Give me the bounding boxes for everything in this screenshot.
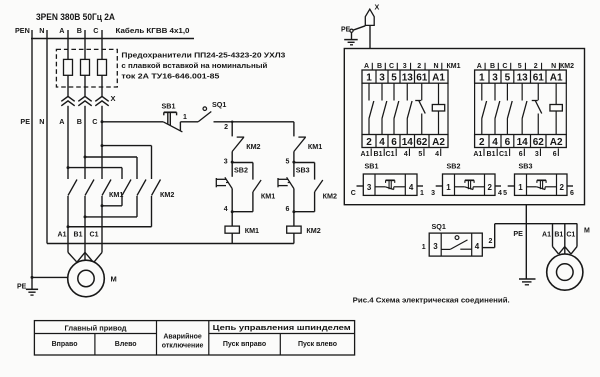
motor M right terminal leads bbox=[542, 224, 590, 255]
node 6 bbox=[285, 189, 295, 227]
svg-text:2: 2 bbox=[534, 63, 538, 70]
wire N vertical bbox=[39, 44, 47, 244]
svg-text:КМ2: КМ2 bbox=[160, 190, 174, 199]
svg-text:PEN: PEN bbox=[15, 26, 30, 35]
svg-text:3: 3 bbox=[367, 183, 372, 192]
wire A to KM2 contact column 4 bbox=[67, 166, 123, 179]
wire SQ1 to motor cable bbox=[482, 224, 577, 248]
coil КМ1 bbox=[225, 226, 259, 235]
svg-text:Пуск влево: Пуск влево bbox=[298, 341, 337, 348]
svg-text:2: 2 bbox=[479, 137, 485, 148]
svg-text:4: 4 bbox=[379, 137, 385, 148]
svg-text:Кабель КГВВ 4х1,0: Кабель КГВВ 4х1,0 bbox=[116, 26, 190, 35]
wire X to cabinet bbox=[369, 25, 371, 48]
svg-text:PE: PE bbox=[341, 27, 351, 34]
node N with label bbox=[39, 26, 47, 44]
ground PE right bbox=[519, 279, 536, 285]
contactor КМ1 terminal row bottom bbox=[362, 135, 448, 148]
svg-text:SQ1: SQ1 bbox=[212, 100, 226, 109]
svg-text:КМ1: КМ1 bbox=[308, 142, 322, 151]
svg-text:КМ1: КМ1 bbox=[109, 190, 123, 199]
svg-text:КМ2: КМ2 bbox=[306, 226, 320, 235]
node PEN with label bbox=[15, 26, 32, 44]
svg-text:13: 13 bbox=[402, 73, 414, 84]
node 5 bbox=[285, 152, 295, 177]
svg-text:3: 3 bbox=[492, 73, 498, 84]
table cell emergency off bbox=[162, 332, 204, 349]
wire C output to C1 bbox=[101, 196, 104, 252]
svg-text:A2: A2 bbox=[550, 137, 563, 148]
pushbutton SB1 (NC stop) bbox=[162, 102, 183, 132]
fuse note text bbox=[121, 53, 285, 81]
svg-text:Рис.4 Схема электрическая соед: Рис.4 Схема электрическая соединений. bbox=[353, 296, 510, 305]
table cell right rotation bbox=[52, 341, 78, 348]
svg-text:A1: A1 bbox=[550, 73, 563, 84]
limit switch SQ1 bbox=[198, 100, 226, 122]
wire branch drop node 3 bbox=[231, 122, 233, 137]
svg-text:A: A bbox=[59, 26, 64, 35]
svg-text:4: 4 bbox=[409, 183, 414, 192]
svg-text:1: 1 bbox=[518, 183, 523, 192]
contactor КМ1 terminal row top bbox=[362, 70, 448, 84]
svg-text:Цепь управления шпинделем: Цепь управления шпинделем bbox=[213, 325, 351, 332]
svg-text:PE: PE bbox=[20, 117, 30, 126]
ground PE top right bbox=[344, 32, 358, 45]
svg-text:13: 13 bbox=[517, 73, 529, 84]
contact КМ1 NC bbox=[294, 137, 322, 151]
svg-text:A1: A1 bbox=[58, 232, 67, 239]
label: cable type KGVV 4x1.0 bbox=[116, 26, 190, 35]
terminal labels top of КМ2 bbox=[477, 63, 574, 70]
svg-text:КМ2: КМ2 bbox=[560, 63, 574, 70]
node 4 bbox=[224, 189, 234, 227]
svg-text:4: 4 bbox=[224, 206, 228, 213]
svg-text:отключение: отключение bbox=[162, 342, 204, 349]
svg-text:6: 6 bbox=[505, 137, 511, 148]
motor terminal labels A1 B1 C1 bbox=[58, 232, 99, 239]
svg-text:B1: B1 bbox=[487, 151, 496, 158]
table cell start left bbox=[298, 341, 337, 348]
PE terminal top right bbox=[341, 26, 365, 34]
svg-text:C1: C1 bbox=[90, 232, 99, 239]
pushbutton station SB1 bbox=[363, 162, 417, 196]
svg-text:SB2: SB2 bbox=[234, 166, 248, 175]
contactor КМ2 terminal row top bbox=[475, 70, 567, 84]
contactor КМ2 coil bbox=[550, 83, 562, 134]
svg-text:B1: B1 bbox=[554, 232, 563, 239]
contactor КМ2 NC aux contact bbox=[532, 83, 542, 134]
svg-text:Аварийное: Аварийное bbox=[163, 332, 202, 340]
svg-text:6: 6 bbox=[391, 137, 397, 148]
contact КМ2 NO (seal-in) bbox=[315, 180, 337, 201]
svg-text:PE: PE bbox=[17, 284, 27, 291]
SQ1 terminal labels bbox=[422, 238, 493, 251]
svg-text:A1: A1 bbox=[361, 151, 370, 158]
ground PE bottom left bbox=[17, 277, 38, 295]
svg-text:PE: PE bbox=[513, 229, 523, 238]
svg-text:6: 6 bbox=[285, 206, 289, 213]
wire PE vertical bbox=[20, 44, 32, 277]
svg-text:6: 6 bbox=[519, 151, 523, 158]
wire node 2 bbox=[214, 121, 294, 132]
svg-text:1: 1 bbox=[420, 190, 424, 197]
pushbutton SB2 NO bbox=[216, 166, 248, 189]
svg-text:B: B bbox=[490, 63, 495, 70]
fuse FU2 bbox=[81, 44, 90, 97]
svg-text:КМ1: КМ1 bbox=[447, 63, 461, 70]
svg-text:ток 2А ТУ16-646.001-85: ток 2А ТУ16-646.001-85 bbox=[121, 74, 219, 81]
svg-text:3: 3 bbox=[431, 190, 435, 197]
wire PE to motor bbox=[31, 276, 68, 279]
svg-text:6: 6 bbox=[553, 151, 557, 158]
svg-text:5: 5 bbox=[503, 190, 507, 197]
svg-text:C: C bbox=[502, 63, 507, 70]
contactor КМ1 body side rails bbox=[362, 83, 448, 134]
table header main drive bbox=[65, 325, 128, 333]
terminal labels bottom of КМ1 bbox=[361, 149, 441, 159]
table cell left rotation bbox=[115, 341, 137, 348]
svg-text:2: 2 bbox=[560, 183, 565, 192]
contactor KM2 main contacts bbox=[122, 180, 174, 200]
motor M left bbox=[68, 260, 117, 297]
fuse FU1 bbox=[64, 44, 73, 97]
wire stubs of SB2 bbox=[431, 186, 502, 197]
svg-text:5: 5 bbox=[285, 159, 289, 166]
svg-text:14: 14 bbox=[517, 137, 529, 148]
wire phase C vertical bbox=[101, 106, 103, 179]
svg-text:A1: A1 bbox=[542, 232, 551, 239]
terminal labels bottom of КМ2 bbox=[473, 149, 558, 159]
svg-text:КМ2: КМ2 bbox=[323, 192, 337, 201]
svg-text:4: 4 bbox=[475, 242, 480, 251]
node B with label bbox=[77, 26, 85, 44]
svg-text:2: 2 bbox=[489, 238, 493, 245]
svg-text:2: 2 bbox=[366, 137, 372, 148]
svg-text:SB1: SB1 bbox=[162, 102, 176, 111]
svg-text:6: 6 bbox=[570, 190, 574, 197]
contactor КМ1 contacts bbox=[369, 83, 412, 134]
contactor КМ1 NC aux contact bbox=[415, 83, 425, 134]
svg-text:КМ1: КМ1 bbox=[245, 226, 259, 235]
svg-text:3: 3 bbox=[535, 151, 539, 158]
svg-text:X: X bbox=[111, 94, 116, 103]
svg-text:2: 2 bbox=[417, 63, 421, 70]
svg-text:N: N bbox=[39, 117, 44, 126]
svg-text:4: 4 bbox=[435, 151, 439, 158]
svg-text:SQ1: SQ1 bbox=[432, 222, 446, 231]
pushbutton station SB2 bbox=[443, 162, 496, 196]
wire A output to A1 bbox=[67, 196, 70, 252]
phase labels row 2 bbox=[59, 117, 97, 126]
svg-text:61: 61 bbox=[533, 73, 545, 84]
wire parallel branch down bbox=[232, 192, 253, 212]
table cell start right bbox=[223, 341, 266, 348]
svg-text:1: 1 bbox=[479, 73, 485, 84]
svg-text:3PEN 380В 50Гц 2А: 3PEN 380В 50Гц 2А bbox=[36, 12, 115, 23]
svg-text:B1: B1 bbox=[374, 151, 383, 158]
terminal labels top of КМ1 bbox=[364, 63, 461, 70]
wire KM2 col4 to C1 bbox=[102, 196, 122, 206]
svg-text:C: C bbox=[351, 190, 356, 197]
wire coil to neutral bus bbox=[293, 233, 295, 243]
svg-text:1: 1 bbox=[183, 114, 187, 121]
svg-text:Вправо: Вправо bbox=[52, 341, 78, 348]
connector X chevron arrows bbox=[61, 94, 115, 106]
wire parallel branch down bbox=[294, 192, 315, 212]
svg-text:4: 4 bbox=[404, 151, 408, 158]
svg-text:4: 4 bbox=[498, 190, 502, 197]
dashed fuse enclosure bbox=[56, 49, 117, 87]
svg-text:C1: C1 bbox=[566, 232, 575, 239]
wire control neutral bus bbox=[47, 243, 294, 245]
contactor KM1 main contacts bbox=[68, 180, 123, 200]
svg-text:2: 2 bbox=[488, 183, 493, 192]
svg-text:1: 1 bbox=[422, 244, 426, 251]
svg-text:B: B bbox=[77, 117, 82, 126]
wire coil to neutral bus bbox=[231, 233, 233, 243]
svg-text:X: X bbox=[375, 3, 380, 12]
svg-text:SB1: SB1 bbox=[365, 162, 379, 171]
contactor КМ1 coil bbox=[432, 83, 444, 134]
svg-text:М: М bbox=[584, 228, 590, 235]
svg-text:62: 62 bbox=[533, 137, 545, 148]
node on C feeding control bbox=[101, 120, 164, 123]
contactor КМ2 terminal row bottom bbox=[475, 135, 567, 148]
svg-text:N: N bbox=[39, 26, 44, 35]
table header spindle control bbox=[213, 325, 351, 332]
wire to parallel contact bbox=[294, 163, 315, 180]
svg-text:КМ2: КМ2 bbox=[246, 142, 260, 151]
wire B output to B1 bbox=[84, 196, 87, 260]
fuse FU3 bbox=[98, 44, 107, 97]
wire phase B vertical bbox=[84, 106, 86, 179]
svg-text:B1: B1 bbox=[74, 232, 83, 239]
node 3 bbox=[224, 152, 234, 177]
svg-text:М: М bbox=[111, 275, 117, 284]
svg-text:14: 14 bbox=[402, 137, 414, 148]
node A with label bbox=[59, 26, 68, 44]
header label 3PEN 380V 50Hz 2A bbox=[36, 12, 115, 23]
svg-text:C: C bbox=[389, 63, 394, 70]
svg-text:61: 61 bbox=[416, 73, 428, 84]
svg-text:B: B bbox=[377, 63, 382, 70]
svg-text:3: 3 bbox=[433, 242, 438, 251]
svg-text:Главный привод: Главный привод bbox=[65, 325, 128, 333]
wire node 1 bbox=[180, 114, 198, 131]
coil КМ2 bbox=[287, 226, 321, 235]
svg-text:C1: C1 bbox=[499, 151, 508, 158]
contactor КМ2 body side rails bbox=[475, 83, 567, 134]
wire phase A vertical bbox=[67, 106, 69, 179]
svg-text:4: 4 bbox=[492, 137, 498, 148]
wire PE drop right bbox=[513, 205, 526, 279]
svg-text:C1: C1 bbox=[386, 151, 395, 158]
wire: top supply bus bbox=[31, 38, 194, 40]
svg-text:Предохранители ПП24-25-4323-20: Предохранители ПП24-25-4323-20 УХЛ3 bbox=[121, 53, 285, 60]
svg-text:SB3: SB3 bbox=[296, 166, 310, 175]
svg-text:5: 5 bbox=[518, 63, 522, 70]
contact КМ2 NC bbox=[232, 137, 260, 151]
node C with label bbox=[93, 26, 102, 44]
legend table bbox=[34, 321, 354, 355]
svg-text:A1: A1 bbox=[473, 151, 482, 158]
wire C to KM2 contact column 6 bbox=[101, 144, 152, 179]
motor M left funnel leads bbox=[68, 252, 102, 261]
svg-text:3: 3 bbox=[379, 73, 385, 84]
svg-text:3: 3 bbox=[403, 63, 407, 70]
svg-text:1: 1 bbox=[446, 183, 451, 192]
wire stubs of SB1 bbox=[351, 186, 424, 197]
wire B to KM2 contact column 5 bbox=[84, 156, 138, 180]
svg-text:2: 2 bbox=[224, 124, 228, 131]
svg-text:5: 5 bbox=[418, 151, 422, 158]
svg-text:A: A bbox=[364, 63, 369, 70]
svg-text:A1: A1 bbox=[432, 73, 445, 84]
svg-text:3: 3 bbox=[224, 159, 228, 166]
svg-text:C: C bbox=[93, 26, 98, 35]
svg-text:Влево: Влево bbox=[115, 341, 137, 348]
motor M right bbox=[547, 254, 583, 290]
svg-text:62: 62 bbox=[416, 137, 428, 148]
wire branch drop node 5 bbox=[293, 122, 295, 137]
wire KM2 col6 to A1 bbox=[68, 196, 152, 227]
wire KM2 col5 to B1 bbox=[85, 196, 137, 217]
svg-text:A: A bbox=[59, 117, 64, 126]
svg-text:A: A bbox=[477, 63, 482, 70]
wire to parallel contact bbox=[232, 163, 253, 180]
svg-text:B: B bbox=[77, 26, 82, 35]
svg-text:N: N bbox=[551, 63, 556, 70]
cabinet enclosure box bbox=[344, 49, 584, 205]
svg-text:1: 1 bbox=[366, 73, 372, 84]
contactor КМ2 contacts bbox=[482, 83, 527, 134]
svg-text:C: C bbox=[92, 117, 97, 126]
svg-text:5: 5 bbox=[505, 73, 511, 84]
svg-text:КМ1: КМ1 bbox=[261, 192, 275, 201]
svg-text:с плавкой вставкой на номиналь: с плавкой вставкой на номинальный bbox=[121, 62, 267, 70]
pushbutton SB3 NO bbox=[278, 166, 310, 189]
svg-text:Пуск вправо: Пуск вправо bbox=[223, 341, 266, 348]
limit switch box SQ1 bbox=[429, 222, 482, 256]
contact КМ1 NO (seal-in) bbox=[253, 180, 275, 201]
svg-text:5: 5 bbox=[391, 73, 397, 84]
svg-text:N: N bbox=[433, 63, 438, 70]
svg-text:SB3: SB3 bbox=[519, 162, 533, 171]
svg-text:A2: A2 bbox=[432, 137, 445, 148]
svg-text:SB2: SB2 bbox=[447, 162, 461, 171]
wire stubs of SB3 bbox=[503, 186, 574, 197]
caption Fig.4 bbox=[353, 296, 510, 305]
connector X pentagon bbox=[365, 3, 379, 26]
pushbutton station SB3 bbox=[515, 162, 568, 196]
